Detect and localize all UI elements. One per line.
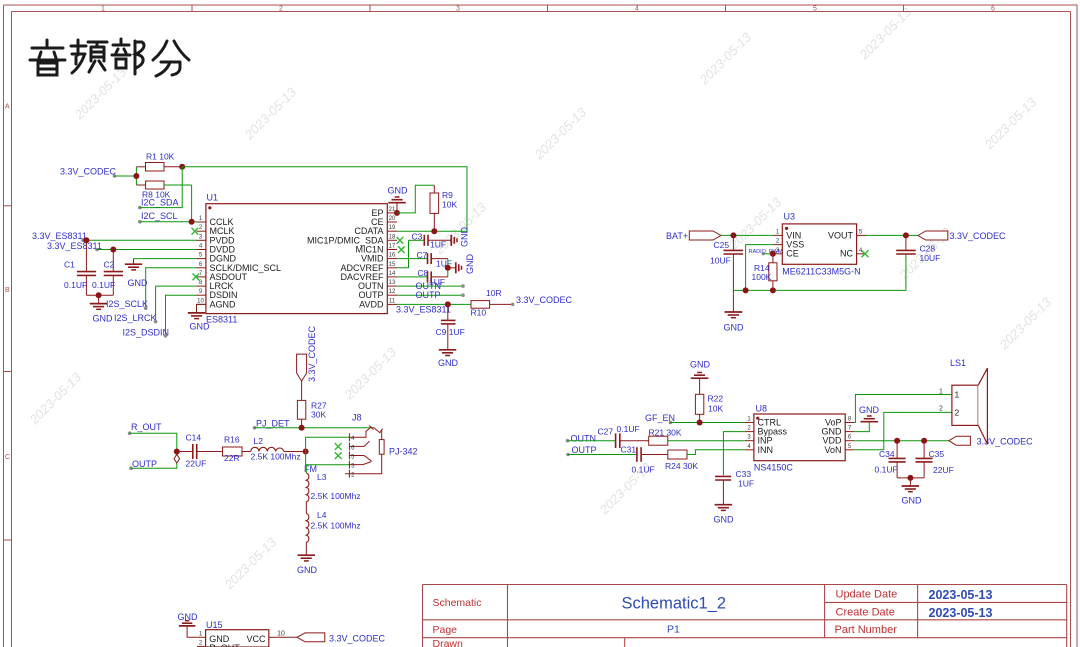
svg-text:GND: GND xyxy=(178,612,199,622)
wire GND to U15 pin1 xyxy=(187,626,197,637)
capacitor C33 xyxy=(715,469,754,504)
svg-text:R21 30K: R21 30K xyxy=(649,428,682,438)
svg-text:C27: C27 xyxy=(598,427,614,437)
svg-text:BAT+: BAT+ xyxy=(666,231,688,241)
svg-text:10R: 10R xyxy=(486,288,502,298)
junction C28 xyxy=(903,232,909,238)
inductor L2 xyxy=(251,436,306,462)
net label OUTP (amp in) xyxy=(566,445,596,457)
junction R14 rail xyxy=(770,287,776,293)
wire OUTP xyxy=(397,294,463,296)
ground above EP xyxy=(388,197,406,213)
wire VDD to port xyxy=(854,440,949,442)
svg-text:C14: C14 xyxy=(186,433,202,443)
svg-text:C1: C1 xyxy=(64,260,75,270)
wire L3-L4 xyxy=(305,502,307,514)
svg-text:12: 12 xyxy=(389,289,396,295)
svg-text:GND: GND xyxy=(128,278,149,288)
capacitor C28 xyxy=(896,235,940,263)
svg-text:U1: U1 xyxy=(207,193,219,203)
svg-text:0.1UF: 0.1UF xyxy=(92,280,115,290)
svg-text:Page: Page xyxy=(433,624,458,636)
resistor R9 xyxy=(430,185,457,231)
svg-text:5: 5 xyxy=(813,6,817,13)
net label OUTN (amp in) xyxy=(566,434,596,444)
title block labels xyxy=(433,589,898,647)
svg-text:VOUT: VOUT xyxy=(828,230,854,240)
svg-text:AGND: AGND xyxy=(210,299,237,309)
svg-text:C25: C25 xyxy=(714,240,730,250)
svg-text:GND: GND xyxy=(465,254,475,275)
wire DSDIN xyxy=(166,295,197,336)
ground below C9 xyxy=(439,350,457,356)
junction SCL xyxy=(189,219,195,225)
svg-text:2.5K 100Mhz: 2.5K 100Mhz xyxy=(311,491,361,501)
svg-text:B: B xyxy=(5,287,10,294)
svg-text:ES8311: ES8311 xyxy=(206,315,237,325)
U1 left pin names xyxy=(210,217,282,309)
net label I2S_DSDIN xyxy=(123,328,170,338)
wire VoN to speaker pin2 xyxy=(854,412,952,449)
wire FM to L3 xyxy=(305,465,307,473)
svg-text:2023-05-13: 2023-05-13 xyxy=(929,588,993,602)
junction rail xyxy=(96,292,102,298)
capacitor C34 xyxy=(875,441,906,478)
svg-text:PJ_DET: PJ_DET xyxy=(256,419,290,429)
resistor R10 xyxy=(471,288,513,318)
svg-text:VoN: VoN xyxy=(824,445,841,455)
wire OUTP (jack) xyxy=(131,452,177,469)
svg-text:Update Date: Update Date xyxy=(836,589,898,601)
svg-text:10K: 10K xyxy=(708,404,723,414)
resistor R14 xyxy=(752,254,778,291)
svg-text:13: 13 xyxy=(389,280,396,286)
U8 pin stubs xyxy=(745,423,854,450)
svg-text:3.3V_CODEC: 3.3V_CODEC xyxy=(60,167,117,177)
svg-text:0.1UF: 0.1UF xyxy=(64,280,87,290)
svg-text:U8: U8 xyxy=(756,404,768,414)
wire R24 to INN xyxy=(687,450,745,455)
U15 pin stubs xyxy=(197,637,278,646)
svg-text:NC: NC xyxy=(840,249,853,259)
wire AGND to ground xyxy=(197,304,206,312)
svg-text:R22: R22 xyxy=(708,394,724,404)
wire VMID/ADCVREF link xyxy=(397,240,409,267)
capacitor C31 xyxy=(621,445,668,475)
svg-text:R9: R9 xyxy=(442,190,453,200)
ground above U8 GND pin xyxy=(861,416,879,422)
capacitor C7 xyxy=(409,250,453,269)
port 3.3V_CODEC (vertical, above R27) xyxy=(297,325,317,382)
junction L2/FM xyxy=(303,449,309,455)
capacitor C25 xyxy=(710,235,743,290)
svg-text:2.5K 100Mhz: 2.5K 100Mhz xyxy=(251,452,301,462)
svg-text:J8: J8 xyxy=(352,413,362,423)
no-connect X on NC xyxy=(862,250,869,257)
net label I2S_LRCK xyxy=(114,313,157,323)
net label 3.3V_ES8311 (DVDD) xyxy=(47,241,102,252)
svg-text:Schematic: Schematic xyxy=(433,597,482,609)
junction R9/CDATA xyxy=(431,228,437,234)
svg-text:0.1UF: 0.1UF xyxy=(632,465,655,475)
svg-text:C28: C28 xyxy=(920,244,936,254)
net label GF_EN xyxy=(645,413,675,424)
net label PJ_DET xyxy=(253,419,290,430)
svg-text:L3: L3 xyxy=(317,472,327,482)
wire Bypass to C33 xyxy=(723,432,745,476)
no-connect X on MIC1P xyxy=(397,237,404,244)
net label I2C_SCL xyxy=(138,211,178,224)
U1 pin numbers xyxy=(197,207,396,305)
svg-text:NS4150C: NS4150C xyxy=(754,463,794,473)
svg-text:I2S_DSDIN: I2S_DSDIN xyxy=(123,328,170,338)
junction VSS rail xyxy=(743,287,749,293)
junction R_OUT/OUTP xyxy=(174,449,180,455)
junction C35 xyxy=(921,438,927,444)
junction C2 tap xyxy=(110,247,116,253)
svg-text:GND: GND xyxy=(297,565,318,575)
wire DGND xyxy=(134,258,197,260)
junction C25 xyxy=(730,232,736,238)
speaker pin numbers xyxy=(939,389,943,413)
net label R_OUT xyxy=(128,422,162,435)
wire VOUT xyxy=(866,234,918,236)
wire VCC to port xyxy=(278,636,297,638)
svg-text:3: 3 xyxy=(456,6,460,13)
svg-text:3.3V_CODEC: 3.3V_CODEC xyxy=(950,231,1007,241)
svg-text:GND: GND xyxy=(690,360,711,370)
svg-text:2: 2 xyxy=(279,6,283,13)
svg-text:22R: 22R xyxy=(224,453,240,463)
svg-text:10K: 10K xyxy=(442,200,457,210)
svg-text:1: 1 xyxy=(955,390,960,400)
no-connect X on ASDOUT xyxy=(193,274,200,281)
svg-text:100K: 100K xyxy=(752,272,772,282)
capacitor C35 xyxy=(916,441,954,478)
ground right of C3 (rotated) xyxy=(451,235,457,246)
svg-text:I2S_SCLK: I2S_SCLK xyxy=(106,299,148,309)
svg-text:C2: C2 xyxy=(104,260,115,270)
net-tie diamond xyxy=(174,454,180,463)
junction R1 right xyxy=(179,164,185,170)
wire OUTN xyxy=(397,285,463,287)
junction R22 xyxy=(697,420,703,426)
wire C1-C2 bottom rail xyxy=(86,294,113,296)
no-connect X on J8 pin 6 xyxy=(335,443,342,450)
capacitor C9 xyxy=(436,304,465,349)
wire R1/R8 left vertical xyxy=(135,167,137,185)
ground below L4 xyxy=(298,555,316,561)
svg-text:10: 10 xyxy=(277,630,285,637)
svg-text:2: 2 xyxy=(955,408,960,418)
regulator U3 ME6211C33M5G-N xyxy=(782,212,860,277)
svg-text:C9 1UF: C9 1UF xyxy=(436,327,465,337)
svg-text:11: 11 xyxy=(389,298,396,304)
ground below C33 xyxy=(715,505,733,511)
svg-text:R_OUT: R_OUT xyxy=(209,643,240,647)
U3 pin stubs xyxy=(773,235,866,253)
svg-text:R_OUT: R_OUT xyxy=(131,422,162,432)
ground at AGND xyxy=(188,313,206,319)
amplifier U8 NS4150C xyxy=(754,404,845,473)
capacitor C1 xyxy=(64,240,96,295)
svg-text:3.3V_ES8311: 3.3V_ES8311 xyxy=(32,231,87,241)
title block table xyxy=(423,585,1067,647)
ground below C34/C35 xyxy=(902,478,920,492)
wire OUTN to C27 xyxy=(568,440,616,442)
svg-text:1: 1 xyxy=(939,389,943,396)
inductor L3 xyxy=(306,472,360,502)
svg-text:OUTP: OUTP xyxy=(416,290,441,300)
port 3.3V_CODEC (U15) xyxy=(297,633,386,644)
svg-text:20: 20 xyxy=(389,216,396,222)
wire CE xyxy=(763,253,773,255)
resistor R1 xyxy=(136,152,182,172)
wire VoP to speaker pin1 xyxy=(854,395,952,423)
svg-text:GND: GND xyxy=(714,515,735,525)
capacitor C27 xyxy=(598,424,649,448)
wire top long (SDA to CDATA) xyxy=(182,167,467,231)
svg-text:C31: C31 xyxy=(621,445,637,455)
title 音频部分 xyxy=(30,39,189,76)
junction R27/PJ_DET xyxy=(299,425,305,431)
svg-text:19: 19 xyxy=(389,225,396,231)
svg-text:C: C xyxy=(5,454,10,461)
svg-text:L2: L2 xyxy=(254,436,264,446)
border labels xyxy=(5,6,995,462)
capacitor C3 xyxy=(409,232,452,250)
IC U15 xyxy=(206,620,269,647)
wire I2C_SCL to CCLK xyxy=(140,221,197,223)
svg-text:1: 1 xyxy=(101,6,105,13)
svg-text:22UF: 22UF xyxy=(186,459,207,469)
svg-text:3.3V_CODEC: 3.3V_CODEC xyxy=(516,295,573,305)
svg-text:OUTN: OUTN xyxy=(571,434,597,444)
svg-text:R1 10K: R1 10K xyxy=(146,152,175,162)
svg-text:2: 2 xyxy=(939,406,943,413)
U8 pin numbers xyxy=(747,417,852,450)
svg-text:Schematic1_2: Schematic1_2 xyxy=(622,595,727,613)
J8 pin numbers xyxy=(351,436,355,478)
wire R_OUT xyxy=(130,433,177,451)
svg-text:14: 14 xyxy=(389,271,396,277)
svg-text:VCC: VCC xyxy=(246,634,266,644)
svg-text:GND: GND xyxy=(438,358,459,368)
svg-text:ME6211C33M5G-N: ME6211C33M5G-N xyxy=(782,267,860,277)
svg-text:C34: C34 xyxy=(879,449,895,459)
U1 right pin stubs 21-11 xyxy=(387,213,397,305)
svg-text:2023-05-13: 2023-05-13 xyxy=(929,606,993,620)
svg-text:C33: C33 xyxy=(736,469,752,479)
svg-text:R16: R16 xyxy=(224,435,240,445)
U1 left pin stubs 1-10 xyxy=(197,222,206,304)
svg-text:22UF: 22UF xyxy=(933,465,954,475)
svg-text:Drawn: Drawn xyxy=(433,638,464,647)
resistor R22 xyxy=(695,394,723,423)
no-connect X on MCLK xyxy=(192,228,199,235)
svg-text:C8: C8 xyxy=(418,268,429,278)
U1 right pin names xyxy=(307,208,384,310)
svg-text:3.3V_CODEC: 3.3V_CODEC xyxy=(307,325,317,382)
svg-text:GND: GND xyxy=(93,314,114,324)
junction xyxy=(133,173,139,179)
resistor R8 xyxy=(136,181,191,200)
resistor R21 xyxy=(649,428,745,446)
svg-text:3.3V_ES8311: 3.3V_ES8311 xyxy=(47,241,102,251)
junction C7/C8 gnd xyxy=(445,265,451,271)
junction EP xyxy=(394,210,400,216)
svg-text:10UF: 10UF xyxy=(710,256,731,266)
svg-text:Part Number: Part Number xyxy=(835,624,898,636)
svg-text:R10: R10 xyxy=(471,308,487,318)
net label I2C_SDA xyxy=(138,198,179,210)
svg-text:16: 16 xyxy=(389,253,396,259)
svg-text:OUTP: OUTP xyxy=(132,459,157,469)
svg-text:GND: GND xyxy=(388,186,409,196)
net 3.3V_CODEC (top-left) xyxy=(60,167,117,178)
svg-text:I2C_SCL: I2C_SCL xyxy=(141,211,178,221)
junction C34 xyxy=(894,438,900,444)
speaker LS1 xyxy=(950,358,987,444)
junction C1 tap xyxy=(83,237,89,243)
wire jack left loop xyxy=(306,437,350,465)
wire U8 GND pin xyxy=(854,422,869,432)
no-connect X on MIC1N xyxy=(398,246,405,253)
U8 pin names xyxy=(758,418,788,455)
svg-text:CE: CE xyxy=(786,249,799,259)
net label 3.3V_ES8311 (PVDD) xyxy=(32,231,87,242)
svg-text:LS1: LS1 xyxy=(950,358,966,368)
resistor R27 xyxy=(297,381,326,428)
U15 pin numbers xyxy=(199,630,285,646)
U3 pin numbers xyxy=(776,229,863,253)
resistor R24 xyxy=(665,450,698,471)
U3 pin names xyxy=(786,230,804,258)
wire bottom rail xyxy=(733,254,906,290)
capacitor C14 xyxy=(177,433,223,469)
svg-text:AVDD: AVDD xyxy=(359,299,384,309)
svg-text:0.1UF: 0.1UF xyxy=(617,424,640,434)
svg-text:C3: C3 xyxy=(412,232,423,242)
svg-text:U3: U3 xyxy=(784,212,796,222)
svg-text:3.3V_ES8311: 3.3V_ES8311 xyxy=(396,305,451,315)
svg-text:3.3V_CODEC: 3.3V_CODEC xyxy=(329,634,386,644)
wire GF_EN to CTRL xyxy=(671,422,745,424)
wire DVDD xyxy=(97,249,197,251)
svg-text:A: A xyxy=(5,104,10,111)
wire I2C_SDA xyxy=(140,167,182,208)
svg-text:I2S_LRCK: I2S_LRCK xyxy=(114,313,157,323)
svg-text:1UF: 1UF xyxy=(738,479,754,489)
svg-text:P1: P1 xyxy=(667,624,680,636)
wire PJ_DET xyxy=(255,427,375,429)
ground above R22 xyxy=(691,373,709,395)
svg-text:2.5K 100Mhz: 2.5K 100Mhz xyxy=(311,521,361,531)
capacitor C2 xyxy=(92,250,123,296)
port 3.3V_CODEC (U8) xyxy=(949,436,1033,446)
svg-text:C35: C35 xyxy=(929,449,945,459)
connector J8 PJ-342 xyxy=(345,413,384,478)
svg-text:GND: GND xyxy=(859,405,880,415)
svg-text:OUTP: OUTP xyxy=(572,445,597,455)
svg-text:15: 15 xyxy=(389,262,396,268)
junction AVDD/C9 xyxy=(445,301,451,307)
resistor R16 xyxy=(223,435,251,464)
svg-text:0.1UF: 0.1UF xyxy=(875,465,898,475)
svg-text:1UF: 1UF xyxy=(430,240,446,250)
svg-text:4: 4 xyxy=(635,6,639,13)
svg-text:GND: GND xyxy=(460,227,470,248)
op-amp U1 body ES8311 xyxy=(206,193,387,325)
ground at DGND xyxy=(125,259,142,270)
inductor L4 xyxy=(306,510,360,542)
net label RADIO_PWM xyxy=(749,249,783,255)
wire C34/C35 bottom rail xyxy=(897,477,924,479)
ground below C1/C2 xyxy=(90,295,108,309)
wire C7/C8 to ground xyxy=(447,259,449,277)
svg-text:L4: L4 xyxy=(317,510,327,520)
net label OUTP (jack) xyxy=(129,459,157,470)
ground right of C7/C8 (rotated) xyxy=(448,262,462,273)
ground above U15 pin1 xyxy=(179,621,195,626)
svg-text:10UF: 10UF xyxy=(920,253,941,263)
wire SCLK/DMIC_SCL xyxy=(146,268,197,308)
wire PVDD xyxy=(83,239,197,241)
svg-text:30K: 30K xyxy=(311,410,326,420)
svg-text:6: 6 xyxy=(991,6,995,13)
title block values xyxy=(622,588,993,636)
svg-text:Create Date: Create Date xyxy=(836,607,895,619)
svg-text:PJ-342: PJ-342 xyxy=(389,446,418,456)
junction CE/R14 xyxy=(770,251,776,257)
wire EP to R9 xyxy=(397,185,434,213)
svg-text:INN: INN xyxy=(758,445,774,455)
wire AVDD xyxy=(397,303,471,305)
wire R8 to SCL xyxy=(191,185,193,222)
port 3.3V_CODEC (U3 out) xyxy=(918,231,1006,241)
svg-text:GND: GND xyxy=(724,323,745,333)
svg-text:U15: U15 xyxy=(206,620,223,630)
U15 pin names xyxy=(209,634,240,647)
capacitor C8 xyxy=(397,268,448,287)
wire L4 to ground xyxy=(305,542,307,555)
wire OUTP to C31 xyxy=(568,454,637,456)
svg-text:10: 10 xyxy=(197,298,204,304)
wire 3.3V_CODEC to R1/R8 xyxy=(115,175,137,177)
ground below C25 xyxy=(725,290,743,317)
no-connect X on J8 pin 5 xyxy=(335,452,342,459)
junction C34/C35 gnd xyxy=(907,475,913,481)
svg-text:C7: C7 xyxy=(417,250,428,260)
net label I2S_SCLK xyxy=(106,299,148,310)
svg-text:18: 18 xyxy=(389,234,396,240)
svg-text:GND: GND xyxy=(190,322,211,332)
svg-text:R24 30K: R24 30K xyxy=(665,461,698,471)
wire BAT+ to VIN xyxy=(721,234,773,236)
wire VSS down xyxy=(746,245,774,291)
svg-text:17: 17 xyxy=(389,244,396,250)
port BAT+ xyxy=(666,231,721,241)
wire LRCK xyxy=(156,286,197,322)
svg-text:I2C_SDA: I2C_SDA xyxy=(141,198,179,208)
svg-text:GND: GND xyxy=(902,496,923,506)
